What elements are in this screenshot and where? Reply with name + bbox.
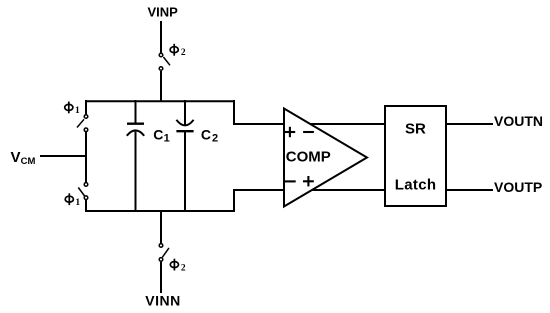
- svg-text:C: C: [201, 126, 211, 142]
- svg-text:VINP: VINP: [148, 4, 179, 19]
- svg-text:2: 2: [212, 132, 218, 144]
- svg-text:VOUTP: VOUTP: [494, 179, 542, 195]
- svg-text:Latch: Latch: [395, 177, 437, 194]
- svg-text:2: 2: [181, 263, 186, 273]
- svg-text:COMP: COMP: [286, 148, 331, 165]
- svg-text:1: 1: [75, 106, 80, 116]
- svg-text:2: 2: [181, 48, 186, 58]
- svg-text:1: 1: [164, 132, 170, 144]
- svg-text:CM: CM: [21, 156, 36, 167]
- svg-text:1: 1: [75, 198, 80, 208]
- svg-text:VOUTN: VOUTN: [494, 113, 543, 129]
- svg-text:VINN: VINN: [145, 293, 180, 309]
- svg-text:V: V: [11, 149, 21, 166]
- svg-text:SR: SR: [405, 120, 426, 137]
- svg-text:C: C: [153, 126, 163, 142]
